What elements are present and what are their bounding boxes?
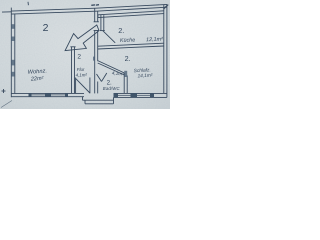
svg-text:12,1m²: 12,1m² (146, 37, 163, 44)
arrow entrance (65, 25, 99, 51)
wall bath right (124, 73, 127, 93)
tick top-left (27, 2, 29, 5)
svg-text:2: 2 (77, 53, 81, 60)
svg-text:Küche: Küche (120, 37, 135, 44)
crease bottom-left (1, 101, 12, 108)
wall bottom-left (11, 93, 84, 96)
window bottom W3 (114, 93, 138, 97)
svg-text:Flur: Flur (77, 67, 85, 72)
wall right outer (164, 5, 167, 98)
room labels (28, 22, 164, 91)
wall kitchen left (100, 15, 105, 31)
wall mid vertical main (94, 31, 99, 94)
wall bottom-right (114, 93, 167, 97)
wall mid vertical upper stub (94, 8, 99, 21)
tick top-right (164, 5, 169, 9)
wall bath diagonal (98, 61, 125, 75)
door kitchen leaf (103, 31, 115, 43)
wall outer-top-left (11, 8, 96, 14)
window left W2 (11, 60, 15, 77)
svg-text:22m²: 22m² (30, 76, 44, 83)
steps below bath (83, 97, 114, 104)
tick bottom-left cross (2, 89, 6, 93)
svg-text:Bad/WC: Bad/WC (103, 86, 121, 91)
tick marks top-middle (91, 4, 99, 7)
door bath V (97, 73, 107, 82)
wall outer-top-right (96, 4, 167, 11)
door post hall (93, 57, 95, 61)
wall left outer (11, 11, 15, 97)
svg-text:14,1m²: 14,1m² (137, 73, 153, 80)
wall kitchen/bedroom divider (98, 43, 164, 49)
door entrance N (76, 78, 90, 94)
door bath-right dark block (124, 71, 127, 77)
svg-text:2.: 2. (118, 26, 124, 35)
svg-text:4,1m²: 4,1m² (76, 73, 88, 78)
wall kitchen top (98, 11, 164, 18)
window bottom W1 (29, 93, 52, 97)
window bottom W2 (51, 93, 68, 97)
paper background (0, 0, 170, 109)
svg-text:2.: 2. (125, 54, 131, 63)
window left W1 (11, 24, 15, 41)
dimension extension top-left corner (2, 11, 11, 13)
wall livingroom/hall (70, 47, 75, 94)
svg-text:2: 2 (43, 22, 49, 34)
window bottom W4 (137, 93, 154, 97)
